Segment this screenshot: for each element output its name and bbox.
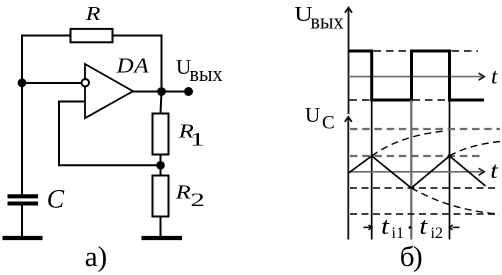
capacitor voltage waveform xyxy=(349,156,486,188)
wire capacitor C to ground xyxy=(21,206,23,237)
dashed black lower threshold xyxy=(350,187,497,189)
svg-text:C: C xyxy=(322,112,335,133)
svg-text:а): а) xyxy=(85,241,108,273)
op-amp U1 triangle DA xyxy=(85,64,133,118)
label Uout graph xyxy=(294,3,313,26)
label DA xyxy=(116,53,150,77)
ti1 arrow right xyxy=(364,226,372,228)
svg-text:R: R xyxy=(85,2,101,25)
dashed low level segment 2 xyxy=(413,99,450,101)
ti2 arrowhead xyxy=(449,225,452,230)
svg-text:t: t xyxy=(491,63,498,88)
axis Uc vertical xyxy=(347,118,349,240)
output node junction dot xyxy=(157,87,166,96)
svg-text:вых: вых xyxy=(311,8,344,33)
wire R1 to node B xyxy=(160,155,162,176)
vertical timing line 1 xyxy=(371,100,373,240)
wire output node down to R1 xyxy=(161,92,162,114)
wire resistor R to output node xyxy=(113,36,162,92)
wire feedback from R1-R2 node to op-amp non-inverting input xyxy=(59,102,161,166)
dashed exponential from second peak xyxy=(450,142,501,157)
wire node A to op-amp inverting input xyxy=(22,82,82,84)
Uout terminal dot xyxy=(184,87,193,96)
axis Uc vertical arrowhead xyxy=(345,117,352,122)
label R2 subscript xyxy=(191,190,205,211)
dashed low level segment 1 xyxy=(350,99,372,101)
dashed exponential from first peak xyxy=(372,131,446,156)
ground under capacitor xyxy=(3,236,43,240)
svg-text:1: 1 xyxy=(190,129,205,150)
svg-text:R: R xyxy=(175,181,191,203)
resistor R1 xyxy=(153,114,169,155)
vertical timing line 2 gray xyxy=(410,100,412,240)
svg-text:2: 2 xyxy=(191,190,205,211)
svg-text:t: t xyxy=(490,158,498,183)
svg-text:i1: i1 xyxy=(392,225,404,242)
vertical timing line 3 xyxy=(449,100,451,240)
svg-text:t: t xyxy=(381,214,391,240)
label R2 xyxy=(175,181,191,203)
dashed gray upper threshold xyxy=(350,155,481,157)
resistor R2 xyxy=(153,176,169,217)
ti1 arrowhead xyxy=(369,225,372,230)
axis Uout vertical xyxy=(348,9,350,114)
wire top-left from node A up and to resistor R xyxy=(22,36,71,84)
svg-text:t: t xyxy=(419,214,429,240)
label R1 xyxy=(178,120,194,142)
axis t top arrowhead xyxy=(479,73,485,80)
wire op-amp output to output node xyxy=(133,91,162,93)
label R xyxy=(85,2,101,25)
dashed exponential from trough xyxy=(411,188,499,214)
separator dot between ti1 ti2 xyxy=(409,226,412,229)
svg-text:б): б) xyxy=(400,241,422,273)
svg-text:U: U xyxy=(305,103,320,127)
axis Uout vertical arrowhead xyxy=(345,8,352,13)
axis t bottom graph xyxy=(349,171,483,173)
dashed high level segment 1 xyxy=(374,50,412,52)
ground under R2 xyxy=(142,236,183,240)
capacitor C plates xyxy=(8,196,39,203)
axis t top graph xyxy=(349,76,483,78)
op-amp inverting input bubble xyxy=(82,79,89,86)
wire node A down to capacitor C xyxy=(21,83,23,195)
dashed gray asymptote top xyxy=(350,128,500,130)
svg-text:C: C xyxy=(47,184,65,213)
svg-text:вых: вых xyxy=(190,61,223,86)
svg-text:i2: i2 xyxy=(431,225,443,242)
wire output node to Uout terminal xyxy=(162,91,189,93)
square wave Uout xyxy=(349,51,485,100)
resistor R xyxy=(71,29,113,42)
label R1 subscript xyxy=(190,129,205,150)
dashed high level segment 2 xyxy=(452,50,479,52)
node A junction dot (inverting input node) xyxy=(18,78,27,87)
svg-text:DA: DA xyxy=(116,53,150,77)
node B junction dot (R1-R2) xyxy=(156,161,165,170)
dashed black asymptote bottom xyxy=(350,213,497,215)
wire R2 to ground xyxy=(160,217,162,237)
peak dot at second peak xyxy=(448,154,452,158)
axis t bottom arrowhead xyxy=(479,168,485,175)
ti2 arrow left xyxy=(452,226,459,228)
